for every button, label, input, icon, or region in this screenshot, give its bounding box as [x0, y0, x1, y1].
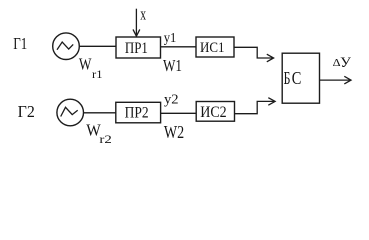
svg-text:ПР1: ПР1 — [125, 40, 148, 57]
svg-text:r1: r1 — [92, 69, 103, 81]
wire — [84, 112, 117, 114]
wire — [161, 112, 197, 114]
svg-text:x: x — [140, 5, 146, 24]
svg-text:Г1: Г1 — [13, 34, 27, 53]
svg-text:y2: y2 — [164, 92, 179, 107]
svg-text:r2: r2 — [99, 132, 111, 146]
block ПР2 — [116, 102, 161, 123]
wire — [161, 46, 197, 48]
wire — [79, 45, 116, 47]
svg-text:Б: Б — [284, 68, 291, 88]
generator G1 — [53, 33, 80, 60]
output wire — [320, 76, 351, 84]
svg-text:W1: W1 — [163, 56, 182, 75]
svg-text:W: W — [79, 55, 92, 74]
wire — [235, 101, 275, 113]
block ИС2 — [196, 102, 234, 122]
svg-text:ИС1: ИС1 — [200, 40, 225, 56]
arrowhead — [267, 54, 274, 62]
svg-text:У: У — [340, 55, 351, 71]
svg-text:y1: y1 — [164, 30, 177, 45]
svg-text:Г2: Г2 — [18, 102, 35, 121]
label Wr1 — [79, 55, 103, 82]
wire — [234, 47, 273, 58]
label delta-y — [333, 55, 352, 71]
svg-text:С: С — [292, 68, 302, 88]
svg-text:ПР2: ПР2 — [125, 105, 149, 122]
label Wr2 — [86, 121, 112, 147]
svg-text:ИС2: ИС2 — [200, 104, 227, 121]
block БС — [282, 53, 319, 103]
generator G2 — [57, 99, 84, 126]
svg-text:W2: W2 — [164, 122, 184, 142]
block ПР1 — [116, 37, 161, 58]
block ИС1 — [196, 37, 234, 57]
arrowhead — [268, 98, 275, 106]
input arrow x — [133, 9, 140, 37]
